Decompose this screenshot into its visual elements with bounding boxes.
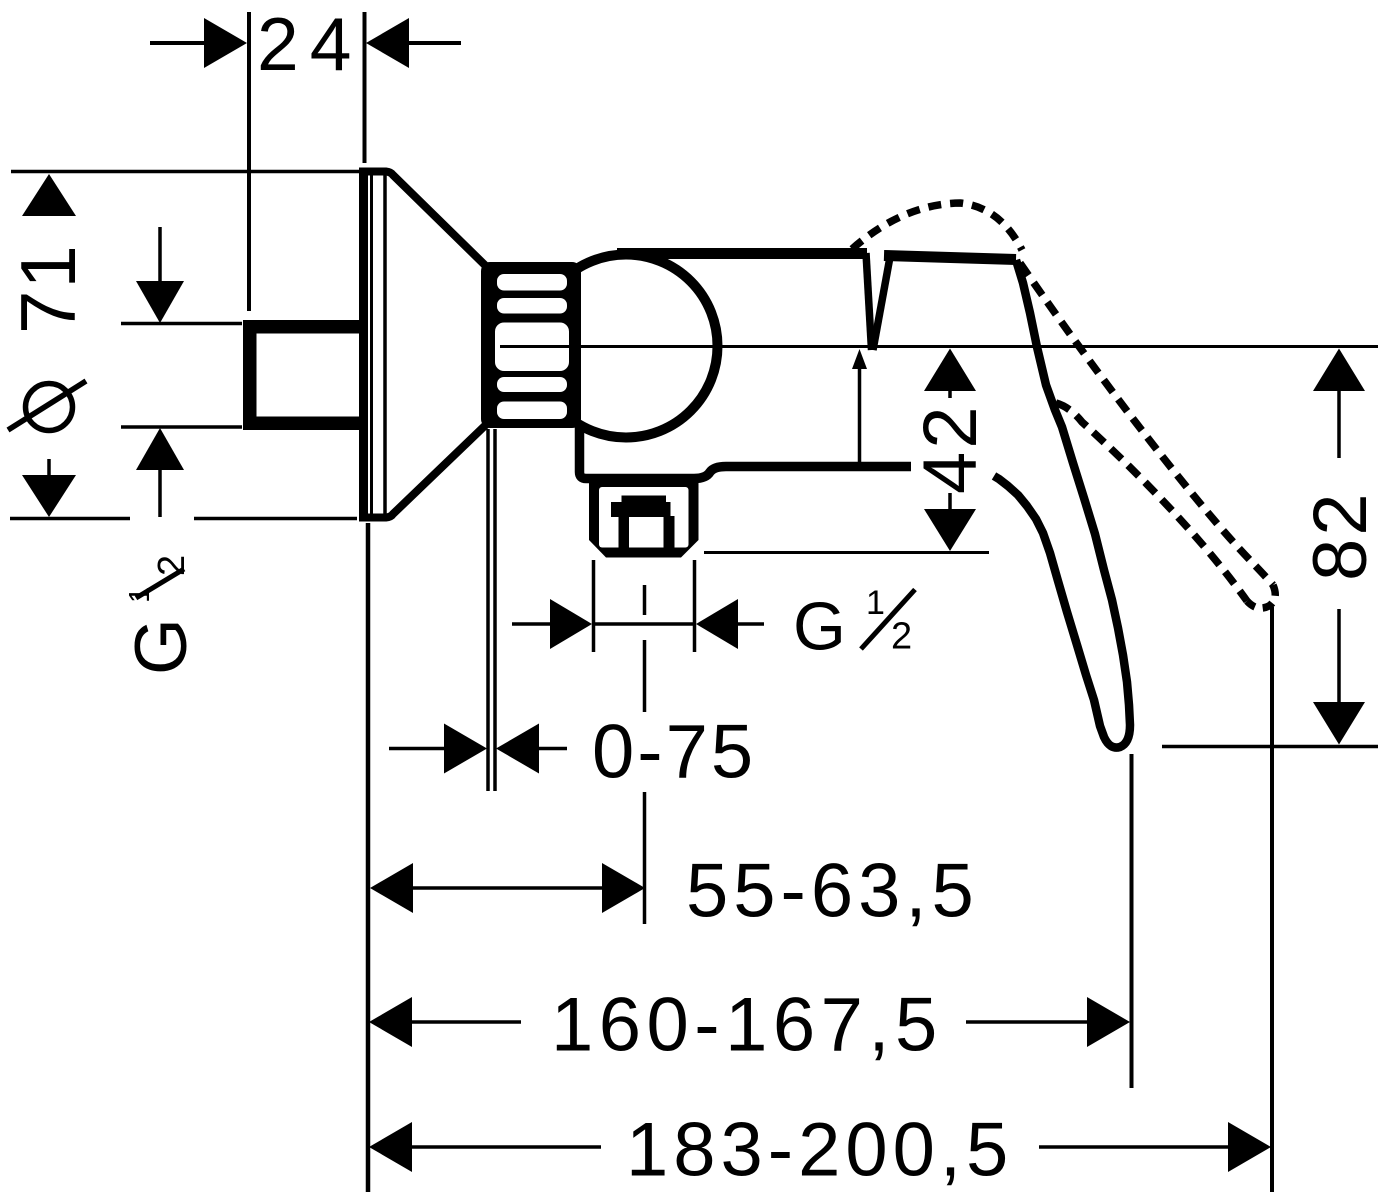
- outlet centerline segment 3: [643, 792, 647, 924]
- dim 55-63,5 right arrowhead: [602, 863, 645, 913]
- outlet G half dim left extension: [592, 560, 596, 652]
- dim 0-75 left arrowhead: [444, 724, 487, 774]
- knurl white band 4: [497, 377, 567, 392]
- svg-text:2: 2: [891, 616, 912, 658]
- svg-text:G: G: [121, 618, 202, 675]
- dashed handle lever lower edge: [1056, 403, 1247, 601]
- dim D71 text 71 rotated: [4, 243, 92, 334]
- nipple thread label G rotated: [121, 618, 202, 675]
- dim D71 top extension line: [11, 170, 359, 174]
- dim 24 left arrowhead: [204, 18, 247, 68]
- dim 42 upper stub: [948, 391, 952, 398]
- outlet thread label one-half slash: [861, 590, 915, 650]
- handle cap top line: [884, 256, 1016, 260]
- dim 183-200,5 left tail: [412, 1145, 601, 1149]
- outlet G half dim right arrowhead: [696, 599, 738, 649]
- dim 160-167,5 left tail: [412, 1020, 521, 1024]
- dim 24 left extension line: [247, 12, 251, 311]
- dim 82 down arrowhead: [1313, 702, 1365, 745]
- dim D71 down arrow stub: [47, 459, 51, 476]
- dim 183-200,5 left arrowhead: [369, 1122, 412, 1172]
- valve body top line: [617, 248, 867, 259]
- dim 82 up arrowhead: [1313, 349, 1365, 392]
- escutcheon top edge: [359, 172, 494, 275]
- dim 183-200,5 right tail: [1039, 1145, 1228, 1149]
- dim D71 bottom extension line right part: [194, 517, 357, 521]
- dim 0-75 right arrowhead: [496, 724, 539, 774]
- svg-text:42: 42: [908, 403, 993, 494]
- body-handle gap V left line: [866, 253, 872, 350]
- union nut washer top step: [622, 496, 667, 504]
- svg-text:G: G: [793, 589, 846, 665]
- dim 42 text rotated: [908, 403, 993, 494]
- dim 160-167,5 right arrowhead: [1087, 997, 1130, 1047]
- union nut right leg: [664, 516, 675, 549]
- wall plane extension line A: [486, 429, 490, 791]
- escutcheon plate line 2: [383, 171, 387, 518]
- knurl white band 1: [497, 274, 567, 291]
- dashed handle tip extension line vertical: [1270, 607, 1274, 1192]
- body-handle gap V right line: [873, 257, 890, 350]
- outlet G half dim left tail: [512, 622, 551, 626]
- knurl white band 5: [497, 402, 567, 420]
- escutcheon plate line 1: [370, 171, 373, 518]
- dim 160-167,5 left arrowhead: [369, 997, 412, 1047]
- dashed handle lever upper edge: [1020, 263, 1273, 585]
- outlet G half dim line between extensions: [594, 622, 694, 626]
- ball joint sphere: [535, 255, 718, 438]
- handle pivot leader arrowhead: [852, 349, 867, 369]
- svg-text:24: 24: [257, 2, 362, 86]
- dim 55-63,5 line: [413, 886, 602, 890]
- svg-text:82: 82: [1298, 490, 1383, 581]
- body lower contour with outlet step: [580, 423, 912, 479]
- outlet G half dim right extension: [693, 560, 697, 652]
- dashed handle lever tip hook: [1247, 585, 1275, 608]
- outlet G half dim right tail: [738, 622, 764, 626]
- dim D71 diameter symbol circle: [26, 384, 73, 431]
- main axis centerline: [500, 345, 1378, 348]
- outlet centerline segment 1: [643, 585, 647, 615]
- nipple dim down arrowhead: [136, 281, 184, 323]
- dim D71 diameter symbol slash: [8, 381, 86, 430]
- dim 55-63,5 left arrowhead: [370, 863, 413, 913]
- dim 0-75 right tail: [539, 747, 567, 751]
- knurled nut body: [481, 262, 581, 428]
- knurl white band 2: [497, 298, 567, 314]
- nipple dim lower line: [158, 470, 162, 517]
- dim D71 bottom extension line left part: [10, 517, 130, 521]
- union nut left leg: [619, 516, 630, 549]
- dim 24 right tail: [409, 41, 461, 45]
- outlet bottom extension line: [704, 551, 989, 554]
- dim 24 left tail: [150, 41, 206, 45]
- wall pipe nipple: [243, 320, 362, 430]
- dim 160-167,5 right tail: [966, 1020, 1087, 1024]
- nipple thread label one-half rotated: digit 1: [124, 587, 156, 603]
- handle tip extension line vertical: [1130, 754, 1134, 1088]
- svg-text:1: 1: [866, 584, 885, 622]
- outlet centerline segment 2: [643, 640, 647, 712]
- dim 82 lower line: [1337, 609, 1341, 702]
- union nut washer plate: [611, 502, 671, 517]
- handle lever outline: [994, 260, 1130, 748]
- svg-text:0-75: 0-75: [592, 710, 756, 795]
- nipple dim up arrowhead: [136, 428, 184, 470]
- wall plane extension line B: [493, 429, 497, 791]
- svg-text:55-63,5: 55-63,5: [686, 849, 979, 934]
- wall pipe nipple bore: [257, 334, 363, 417]
- dim D71 down arrowhead: [22, 475, 76, 517]
- nipple thread label one-half slash: [136, 569, 184, 598]
- dim 0-75 left tail: [389, 747, 445, 751]
- svg-text:2: 2: [151, 555, 193, 576]
- nipple bottom extension line: [121, 425, 242, 429]
- wall face main extension line vertical: [366, 523, 371, 1192]
- knurl white band 3 central: [495, 323, 569, 372]
- dim 82 text rotated: [1298, 490, 1383, 581]
- union nut outer: [589, 477, 699, 558]
- escutcheon front face: [359, 169, 368, 520]
- union nut middle window bottom arc: [629, 517, 664, 542]
- dim 24 right extension line: [363, 12, 367, 163]
- dim 82 upper line: [1337, 391, 1341, 458]
- union nut inner white: [599, 487, 689, 548]
- outlet G half dim left arrowhead: [550, 599, 592, 649]
- svg-text:71: 71: [4, 243, 92, 334]
- dim 24 right arrowhead: [366, 18, 409, 68]
- dim D71 up arrowhead: [22, 174, 76, 216]
- dim 42 up arrowhead: [924, 349, 976, 392]
- dim 183-200,5 right arrowhead: [1228, 1122, 1271, 1172]
- dashed handle cap arc (alternate position): [852, 203, 1022, 250]
- svg-text:160-167,5: 160-167,5: [551, 983, 943, 1068]
- dim 42 down arrowhead: [924, 509, 976, 551]
- dim 42 lower stub: [948, 493, 952, 510]
- nipple top extension line: [121, 322, 242, 326]
- escutcheon bottom edge: [359, 417, 494, 518]
- handle tip extension line horizontal: [1162, 745, 1378, 749]
- handle pivot leader line: [858, 368, 862, 466]
- nipple thread label one-half digit 2: [151, 555, 193, 576]
- nipple dim upper line: [158, 227, 162, 284]
- svg-text:183-200,5: 183-200,5: [626, 1108, 1013, 1193]
